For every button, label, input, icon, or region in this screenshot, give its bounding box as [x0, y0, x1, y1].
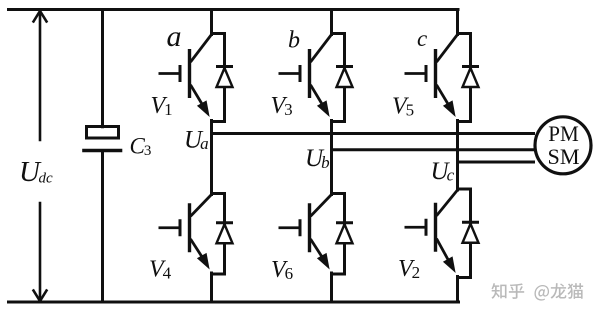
transistor V6 (IGBT): [279, 194, 345, 275]
wire phase b output (node Ub to motor): [332, 148, 534, 151]
wire leg b middle stem: [330, 121, 333, 195]
motor M (PM SM permanent-magnet synchronous machine): [535, 117, 591, 174]
svg-text:c: c: [417, 26, 427, 51]
transistor V1 (IGBT): [159, 34, 225, 122]
wire phase c output (node Uc to motor): [458, 161, 534, 164]
wire leg a middle stem: [210, 121, 213, 195]
diode D3 (antiparallel with V3): [336, 67, 353, 88]
diode D6 (antiparallel with V6): [336, 223, 353, 244]
wire leg a lower stem: [210, 273, 213, 302]
capacitor C3: [84, 127, 121, 151]
svg-text:SM: SM: [548, 144, 580, 169]
svg-text:a: a: [167, 20, 182, 53]
wire leg b lower stem: [330, 273, 333, 302]
svg-text:b: b: [288, 28, 300, 54]
wire leg c middle stem: [456, 121, 459, 191]
wire DC- bottom rail: [9, 301, 459, 304]
transistor V5 (IGBT): [405, 34, 471, 122]
wire leg c lower stem: [456, 277, 459, 303]
wire leg a upper stem: [210, 10, 213, 35]
wire capacitor branch lower lead: [101, 153, 104, 303]
diode D4 (antiparallel with V4): [216, 223, 233, 244]
wire DC+ top rail: [9, 8, 459, 11]
diode D1 (antiparallel with V1): [216, 67, 233, 88]
transistor V4 (IGBT): [159, 194, 225, 275]
transistor V2 (IGBT): [405, 189, 471, 278]
wire leg b upper stem: [330, 10, 333, 35]
watermark (Zhihu @longmao, grey): [491, 283, 583, 300]
svg-text:PM: PM: [548, 121, 579, 146]
transistor V3 (IGBT): [279, 34, 345, 122]
wire capacitor branch upper lead: [101, 10, 104, 127]
diode D5 (antiparallel with V5): [462, 67, 479, 88]
voltage arrow Udc (dimension line with arrowheads): [34, 11, 47, 301]
wire leg c upper stem: [456, 10, 459, 35]
diode D2 (antiparallel with V2): [462, 222, 479, 243]
wire phase a output (node Ua to motor): [212, 132, 534, 135]
